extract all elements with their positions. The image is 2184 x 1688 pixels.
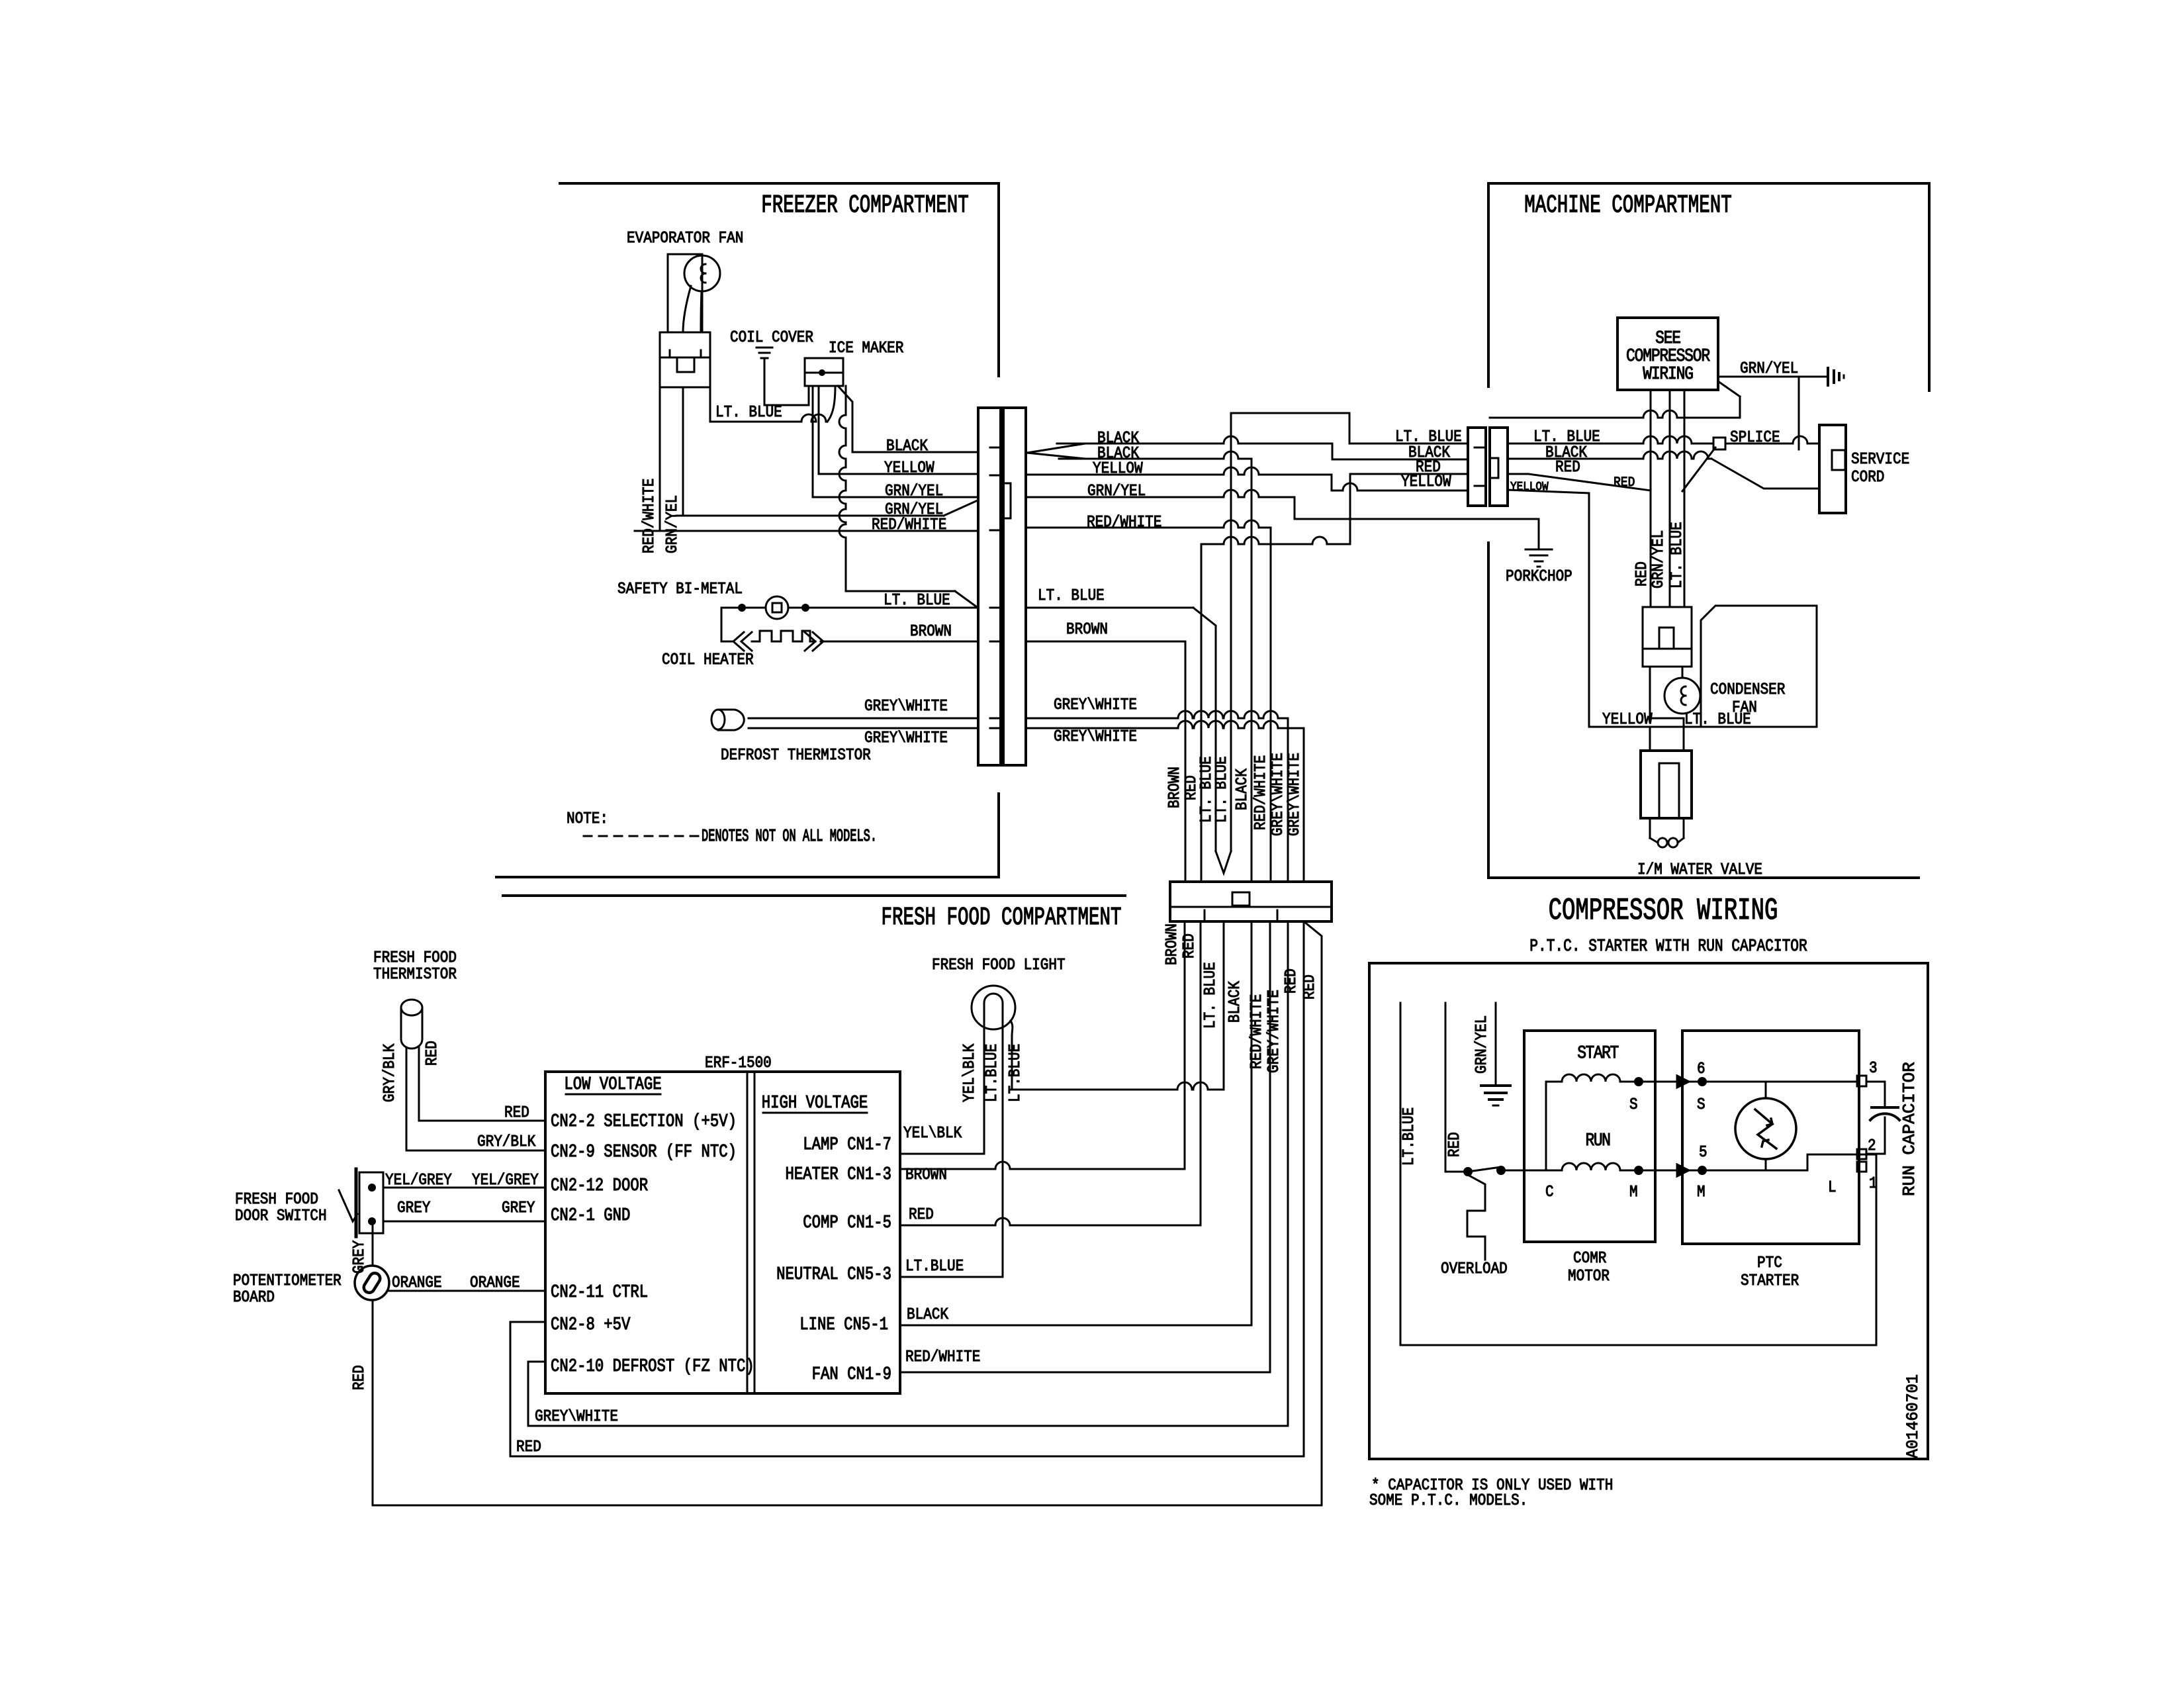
svg-text:GRN/YEL: GRN/YEL <box>1649 530 1668 588</box>
svg-text:RUN: RUN <box>1586 1131 1610 1151</box>
svg-text:CN2-2 SELECTION (+5V): CN2-2 SELECTION (+5V) <box>551 1111 737 1131</box>
svg-text:BROWN: BROWN <box>1066 620 1108 639</box>
svg-text:RED: RED <box>1614 475 1635 490</box>
svg-text:CN2-8 +5V: CN2-8 +5V <box>551 1315 631 1335</box>
svg-text:LT.BLUE: LT.BLUE <box>905 1257 964 1276</box>
svg-text:CN2-10 DEFROST (FZ NTC): CN2-10 DEFROST (FZ NTC) <box>551 1356 754 1376</box>
svg-text:GREY\WHITE: GREY\WHITE <box>864 697 948 716</box>
svg-text:S: S <box>1629 1096 1638 1114</box>
svg-text:GREY\WHITE: GREY\WHITE <box>1054 727 1137 746</box>
svg-text:COMPRESSOR: COMPRESSOR <box>1626 347 1710 367</box>
svg-text:RED: RED <box>423 1041 441 1066</box>
svg-text:GREY\WHITE: GREY\WHITE <box>864 729 948 747</box>
svg-text:LT. BLUE: LT. BLUE <box>715 403 782 422</box>
svg-text:SAFETY BI-METAL: SAFETY BI-METAL <box>617 580 743 598</box>
svg-text:GRN/YEL: GRN/YEL <box>1473 1015 1491 1074</box>
svg-text:BROWN: BROWN <box>910 622 952 641</box>
svg-text:MOTOR: MOTOR <box>1568 1267 1610 1286</box>
svg-text:CN2-11 CTRL: CN2-11 CTRL <box>551 1282 648 1302</box>
svg-text:RED: RED <box>1282 968 1300 994</box>
svg-text:GRY/BLK: GRY/BLK <box>381 1043 399 1102</box>
svg-text:COMR: COMR <box>1573 1249 1607 1268</box>
svg-text:START: START <box>1577 1044 1618 1064</box>
svg-text:1: 1 <box>1869 1174 1878 1193</box>
svg-text:PORKCHOP: PORKCHOP <box>1506 567 1572 586</box>
svg-text:RED: RED <box>1300 974 1319 1000</box>
svg-text:GREY: GREY <box>397 1199 431 1217</box>
svg-text:C: C <box>1545 1183 1554 1201</box>
svg-text:PTC: PTC <box>1757 1254 1782 1272</box>
svg-text:GRY/BLK: GRY/BLK <box>477 1133 536 1151</box>
svg-text:BLACK: BLACK <box>1226 981 1244 1023</box>
svg-text:NOTE:: NOTE: <box>567 810 608 828</box>
svg-text:FRESH FOOD: FRESH FOOD <box>373 949 457 967</box>
svg-text:L: L <box>1828 1178 1837 1197</box>
svg-text:RED: RED <box>909 1205 934 1224</box>
svg-text:ORANGE: ORANGE <box>470 1274 520 1292</box>
svg-text:CN2-9 SENSOR (FF NTC): CN2-9 SENSOR (FF NTC) <box>551 1142 737 1162</box>
svg-text:COIL HEATER: COIL HEATER <box>662 651 754 669</box>
svg-text:DOOR SWITCH: DOOR SWITCH <box>235 1207 327 1225</box>
svg-text:CN2-12 DOOR: CN2-12 DOOR <box>551 1176 648 1196</box>
svg-text:LT. BLUE: LT. BLUE <box>1038 586 1105 605</box>
svg-text:LT. BLUE: LT. BLUE <box>1684 710 1751 729</box>
svg-text:LT.BLUE: LT.BLUE <box>1006 1044 1024 1102</box>
svg-text:LT. BLUE: LT. BLUE <box>1668 522 1686 588</box>
svg-text:LOW VOLTAGE: LOW VOLTAGE <box>564 1074 661 1094</box>
svg-text:GREY: GREY <box>502 1199 535 1217</box>
svg-text:RED/WHITE: RED/WHITE <box>1251 755 1270 830</box>
svg-text:THERMISTOR: THERMISTOR <box>373 965 457 984</box>
svg-text:YEL\BLK: YEL\BLK <box>960 1043 979 1102</box>
svg-text:P.T.C. STARTER WITH RUN CAPACI: P.T.C. STARTER WITH RUN CAPACITOR <box>1529 937 1807 957</box>
svg-text:LT.BLUE: LT.BLUE <box>1400 1107 1418 1166</box>
svg-text:YELLOW: YELLOW <box>1602 710 1653 729</box>
svg-text:FRESH FOOD: FRESH FOOD <box>235 1190 318 1209</box>
svg-text:GRN/YEL: GRN/YEL <box>663 495 682 553</box>
svg-text:EVAPORATOR FAN: EVAPORATOR FAN <box>627 229 743 248</box>
svg-text:RED: RED <box>516 1438 541 1456</box>
svg-text:6: 6 <box>1697 1060 1706 1078</box>
svg-text:M: M <box>1629 1183 1638 1201</box>
svg-text:SEE: SEE <box>1655 329 1680 349</box>
svg-text:LINE CN5-1: LINE CN5-1 <box>799 1315 888 1335</box>
svg-text:BROWN: BROWN <box>1165 767 1184 808</box>
svg-text:LT. BLUE: LT. BLUE <box>884 591 950 610</box>
svg-text:SERVICE: SERVICE <box>1851 450 1909 469</box>
svg-text:POTENTIOMETER: POTENTIOMETER <box>233 1272 341 1290</box>
svg-text:A01460701: A01460701 <box>1905 1374 1923 1458</box>
svg-text:RED: RED <box>350 1365 369 1390</box>
svg-text:STARTER: STARTER <box>1741 1272 1799 1290</box>
svg-text:YEL\BLK: YEL\BLK <box>903 1124 962 1143</box>
svg-text:COIL COVER: COIL COVER <box>730 328 813 347</box>
svg-text:5: 5 <box>1699 1143 1707 1162</box>
svg-text:LT. BLUE: LT. BLUE <box>1212 756 1231 823</box>
svg-text:MACHINE COMPARTMENT: MACHINE COMPARTMENT <box>1524 191 1731 220</box>
svg-text:2: 2 <box>1868 1137 1876 1155</box>
svg-text:ICE MAKER: ICE MAKER <box>829 339 904 357</box>
svg-text:I/M WATER VALVE: I/M WATER VALVE <box>1637 861 1762 879</box>
svg-text:FAN CN1-9: FAN CN1-9 <box>812 1364 891 1384</box>
svg-text:GRN/YEL: GRN/YEL <box>1740 359 1798 378</box>
svg-text:RUN CAPACITOR: RUN CAPACITOR <box>1899 1062 1919 1196</box>
svg-text:COMP CN1-5: COMP CN1-5 <box>803 1213 891 1233</box>
svg-text:S: S <box>1697 1096 1706 1114</box>
svg-text:GREY\WHITE: GREY\WHITE <box>535 1407 618 1426</box>
svg-text:LT.BLUE: LT.BLUE <box>983 1044 1001 1102</box>
svg-text:RED: RED <box>1445 1132 1464 1157</box>
svg-text:RED/WHITE: RED/WHITE <box>905 1348 980 1366</box>
svg-text:GREY: GREY <box>350 1240 369 1274</box>
svg-text:GREY\WHITE: GREY\WHITE <box>1285 753 1304 836</box>
svg-text:M: M <box>1697 1183 1706 1201</box>
svg-text:NEUTRAL CN5-3: NEUTRAL CN5-3 <box>776 1264 891 1284</box>
svg-text:SOME P.T.C. MODELS.: SOME P.T.C. MODELS. <box>1369 1491 1527 1510</box>
svg-text:RED: RED <box>1633 561 1651 586</box>
svg-text:BLACK: BLACK <box>1233 769 1251 810</box>
svg-text:GREY/WHITE: GREY/WHITE <box>1265 990 1283 1073</box>
svg-text:YEL/GREY: YEL/GREY <box>385 1171 452 1190</box>
svg-text:YELLOW: YELLOW <box>1401 473 1451 491</box>
svg-text:CONDENSER: CONDENSER <box>1710 680 1786 699</box>
svg-text:HIGH VOLTAGE: HIGH VOLTAGE <box>762 1093 868 1113</box>
svg-text:RED: RED <box>1555 458 1580 477</box>
svg-text:FRESH FOOD COMPARTMENT: FRESH FOOD COMPARTMENT <box>882 903 1122 932</box>
svg-text:GREY\WHITE: GREY\WHITE <box>1269 753 1287 836</box>
svg-text:FRESH FOOD LIGHT: FRESH FOOD LIGHT <box>932 956 1066 974</box>
svg-text:ORANGE: ORANGE <box>392 1274 442 1292</box>
svg-text:LAMP CN1-7: LAMP CN1-7 <box>803 1135 891 1154</box>
svg-text:FREEZER COMPARTMENT: FREEZER COMPARTMENT <box>761 191 968 220</box>
svg-text:BLACK: BLACK <box>907 1305 948 1324</box>
svg-text:CORD: CORD <box>1851 468 1884 487</box>
svg-text:YEL/GREY: YEL/GREY <box>472 1171 539 1190</box>
svg-text:RED/WHITE: RED/WHITE <box>1248 994 1266 1069</box>
svg-text:RED: RED <box>1180 933 1199 959</box>
svg-text:RED: RED <box>504 1103 529 1122</box>
svg-text:HEATER CN1-3: HEATER CN1-3 <box>785 1164 891 1184</box>
svg-text:DENOTES NOT ON ALL MODELS.: DENOTES NOT ON ALL MODELS. <box>702 827 877 846</box>
svg-text:ERF-1500: ERF-1500 <box>705 1054 772 1072</box>
svg-text:COMPRESSOR WIRING: COMPRESSOR WIRING <box>1549 894 1778 928</box>
svg-text:3: 3 <box>1869 1059 1878 1078</box>
svg-text:OVERLOAD: OVERLOAD <box>1441 1260 1508 1278</box>
svg-text:LT. BLUE: LT. BLUE <box>1201 962 1220 1029</box>
svg-text:CN2-1 GND: CN2-1 GND <box>551 1205 630 1225</box>
svg-text:SPLICE: SPLICE <box>1730 428 1780 447</box>
svg-text:DEFROST THERMISTOR: DEFROST THERMISTOR <box>721 746 871 765</box>
svg-text:GREY\WHITE: GREY\WHITE <box>1054 696 1137 714</box>
svg-text:RED/WHITE: RED/WHITE <box>640 479 659 553</box>
svg-text:BOARD: BOARD <box>233 1288 275 1307</box>
svg-text:BROWN: BROWN <box>1163 923 1181 965</box>
svg-text:WIRING: WIRING <box>1643 365 1693 385</box>
